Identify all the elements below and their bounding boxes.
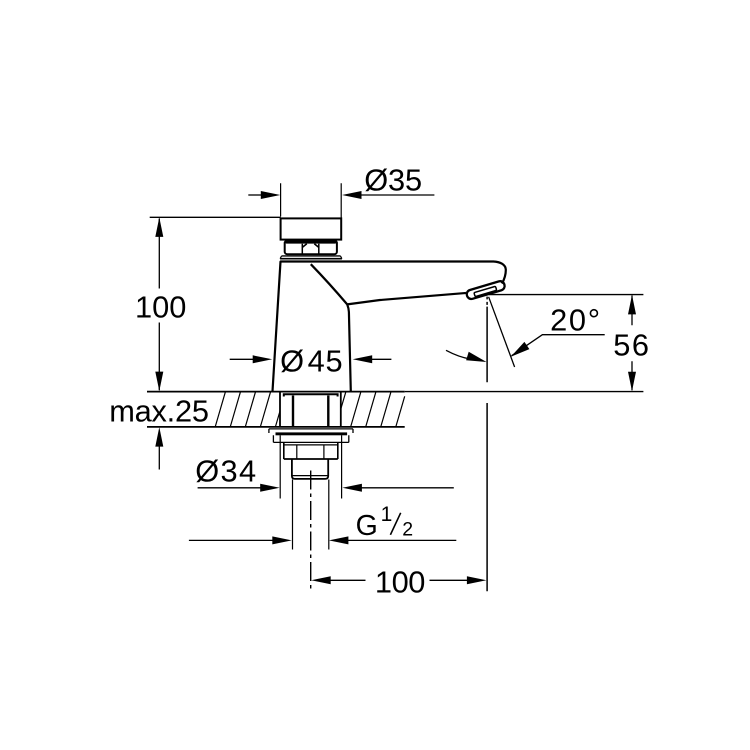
aerator nut under cap [285, 240, 337, 254]
dimension Ø34 line left [198, 487, 262, 489]
dimension 56 arrow up [628, 295, 636, 315]
dimension max.25 tail line [158, 444, 160, 470]
rubber gasket (thick) [276, 432, 348, 435]
dimension 56 vertical line [631, 296, 633, 391]
dimension Ø45 arrow right [353, 355, 373, 363]
dimension Ø34 line right [360, 487, 454, 489]
cap knob [281, 218, 342, 239]
shank through deck [293, 396, 328, 428]
fixture centerline [310, 471, 312, 592]
aerator housing at spout tip [466, 280, 506, 300]
label Ø35 [364, 163, 422, 198]
dimension G1/2 line left [189, 539, 274, 541]
swivel arc [446, 350, 470, 359]
svg-text:max.25: max.25 [109, 394, 209, 429]
dimension Ø35 line right [360, 194, 434, 196]
second washer [273, 435, 348, 442]
svg-text:20°: 20° [550, 303, 600, 338]
faucet body and spout outline [273, 262, 506, 392]
mounting nut [284, 442, 338, 459]
dimension 100 arrow down [155, 372, 163, 392]
dimension 100 bottom arrow left [311, 576, 331, 584]
label 100 bottom [375, 564, 426, 599]
G1/2 extension lines [293, 480, 329, 550]
svg-text:Ø: Ø [280, 343, 304, 378]
dimension G1/2 line right [347, 539, 457, 541]
dimension 100 bottom arrow right [467, 576, 487, 584]
body seat line in deck [284, 394, 338, 396]
dimension 100 top extension line [150, 216, 281, 218]
svg-text:2: 2 [402, 518, 413, 540]
deck hatching [215, 392, 404, 426]
svg-text:100: 100 [375, 564, 426, 599]
svg-text:100: 100 [135, 290, 186, 325]
label max.25 [109, 394, 209, 429]
label 100 left [135, 290, 186, 325]
dimension G1/2 arrow left [272, 536, 292, 544]
threaded shank end [292, 459, 328, 479]
deck hole edges [280, 393, 341, 427]
label G 1/2 [356, 503, 414, 542]
deck bottom line [147, 426, 405, 428]
label G 1/2 slash [390, 513, 400, 535]
20 degree leader line [512, 335, 605, 356]
svg-text:56: 56 [613, 327, 649, 362]
Ø34 cylinder edges / extension lines [280, 435, 341, 498]
deck top line [147, 391, 643, 393]
dimension Ø35 arrow right [342, 191, 362, 199]
dimension max.25 arrow up [155, 427, 163, 447]
dimension 56 arrow down [628, 372, 636, 392]
svg-text:G: G [356, 510, 378, 542]
dimension Ø35 arrow left [261, 191, 281, 199]
label Ø45 [280, 343, 343, 378]
svg-text:Ø34: Ø34 [195, 454, 256, 489]
20 degree leader arrow [511, 342, 530, 357]
label 20 degrees [550, 303, 600, 338]
svg-text:Ø35: Ø35 [364, 163, 422, 198]
dimension Ø45 line left [230, 358, 254, 360]
svg-text:45: 45 [308, 343, 343, 378]
dimension 100 vertical line [158, 219, 160, 391]
outlet reference line [489, 294, 643, 296]
dimension 100 arrow up [155, 217, 163, 237]
skirt rings under nut [280, 256, 342, 259]
dimension 100 bottom line [329, 579, 468, 581]
label Ø34 [195, 454, 256, 489]
dimension Ø45 line right [370, 358, 391, 360]
dimension G1/2 arrow right [329, 536, 349, 544]
water stream vertical line [486, 297, 488, 592]
dimension Ø35 extension lines [281, 183, 342, 217]
dimension Ø34 arrow left [260, 484, 280, 492]
20 degree angled line [489, 297, 515, 367]
swivel arc arrow [466, 352, 486, 362]
washer plate under deck [269, 429, 353, 433]
dimension Ø45 arrow left [253, 355, 273, 363]
dimension Ø34 arrow right [342, 484, 362, 492]
label 56 [613, 327, 649, 362]
dimension Ø35 line left [248, 194, 262, 196]
svg-text:1: 1 [381, 503, 393, 526]
